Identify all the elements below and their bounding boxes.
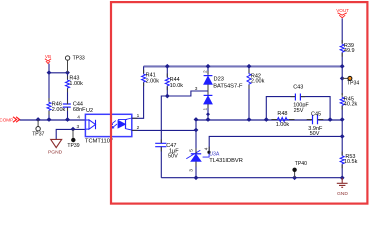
node mid left [194, 117, 199, 122]
capacitor C45 [308, 112, 323, 138]
wire TL431 anode [195, 161, 197, 177]
wire opto pin1 to R41 [132, 83, 144, 119]
node TP37 junction [36, 117, 41, 122]
capacitor C43 [266, 84, 330, 119]
testpoint TP37 [32, 120, 44, 138]
svg-text:VOUT: VOUT [336, 8, 349, 13]
wire COMP to opto pin4 [20, 119, 86, 121]
node rail TP40 [292, 175, 297, 180]
wire TL431 ref [209, 136, 342, 151]
wire mid node rail [196, 119, 312, 121]
node ref right [340, 134, 345, 139]
wire VB row [49, 72, 68, 74]
node bus VOUT column [340, 64, 345, 69]
svg-text:10.0k: 10.0k [170, 83, 184, 89]
svg-text:2.00k: 2.00k [146, 78, 160, 84]
node R46 bottom [47, 117, 52, 122]
svg-text:C45: C45 [311, 112, 321, 118]
node VB row right [65, 70, 70, 75]
svg-text:TP37: TP37 [32, 132, 44, 138]
resistor R46 [47, 73, 66, 120]
node TP34 junction [340, 76, 345, 81]
opto photodetector [118, 118, 132, 130]
node mid R42 [247, 117, 252, 122]
wire VB down [48, 64, 50, 73]
svg-text:5: 5 [189, 149, 195, 152]
node C44 bottom [65, 117, 70, 122]
pin stubs (dark) [49, 40, 342, 168]
svg-text:PGND: PGND [48, 150, 63, 156]
node R44 bottom [165, 94, 170, 99]
svg-text:40.2k: 40.2k [344, 101, 358, 107]
diode D23 BAT54S7-F [204, 66, 243, 119]
node rail TL431 [194, 175, 199, 180]
ground PGND [48, 139, 63, 155]
wire top bus [144, 65, 343, 67]
node bus R42 [247, 64, 252, 69]
power VOUT [336, 8, 349, 18]
wire bottom rail [161, 177, 342, 179]
node D23 pin1 end [206, 112, 210, 116]
svg-text:TP33: TP33 [73, 56, 85, 62]
svg-text:GND: GND [337, 191, 348, 197]
svg-text:COMP: COMP [0, 117, 13, 122]
svg-text:U2: U2 [86, 108, 93, 114]
resistor R43 [66, 73, 84, 104]
svg-text:25V: 25V [294, 108, 304, 114]
svg-text:2.00k: 2.00k [251, 79, 265, 85]
svg-text:R48: R48 [277, 111, 287, 117]
node VB row left [47, 70, 52, 75]
resistor R53 [340, 154, 357, 178]
opto light arrows [111, 121, 117, 129]
resistor R42 [247, 66, 265, 119]
wire TL431 cathode [195, 120, 197, 154]
svg-text:49.9: 49.9 [344, 48, 355, 54]
resistor R39 [340, 43, 354, 67]
svg-text:3: 3 [77, 124, 80, 130]
wire R44 node to C47 [161, 96, 167, 143]
node mid C43 left [264, 117, 269, 122]
svg-text:U3A: U3A [209, 151, 220, 157]
node pin2 TL431 [194, 128, 199, 133]
svg-text:TL431IDBVR: TL431IDBVR [209, 158, 243, 164]
resistor R48 [276, 111, 290, 128]
svg-text:68nF: 68nF [73, 107, 86, 113]
svg-text:D23: D23 [214, 76, 224, 82]
svg-text:TP40: TP40 [295, 161, 307, 167]
ground GND [337, 178, 349, 197]
node TP39 junction [71, 127, 76, 132]
svg-text:1.00k: 1.00k [69, 81, 83, 87]
wire opto pin3 [56, 129, 85, 139]
node rail GND [340, 175, 345, 180]
shunt regulator U3A TL431IDBVR [186, 150, 243, 164]
resistor R45 [340, 96, 357, 119]
svg-text:50V: 50V [168, 154, 178, 160]
resistor R44 [165, 66, 183, 96]
svg-text:TP34: TP34 [347, 81, 359, 87]
svg-text:2.00k: 2.00k [52, 107, 66, 113]
testpoint TP39 [67, 129, 79, 149]
wire right column mid [341, 120, 343, 156]
red highlight border frame [111, 2, 367, 204]
node mid right column [340, 117, 345, 122]
testpoint TP34 [342, 76, 359, 86]
power VB [45, 54, 51, 64]
node mid C43 right [328, 117, 333, 122]
node bus D23 [206, 64, 211, 69]
opto LED [85, 120, 95, 129]
node mid D23 [206, 117, 211, 122]
svg-text:1.00k: 1.00k [276, 122, 290, 128]
capacitor C47 [155, 143, 179, 178]
wire opto pin2 [132, 129, 196, 131]
svg-text:1: 1 [203, 108, 209, 111]
svg-text:3: 3 [189, 169, 195, 172]
wire D23 mid to R44 node [167, 91, 208, 96]
svg-text:BAT54S7-F: BAT54S7-F [213, 83, 243, 89]
svg-text:VB: VB [45, 54, 51, 59]
node bus R44 [165, 64, 170, 69]
svg-text:4: 4 [77, 115, 80, 121]
svg-text:TCMT1107: TCMT1107 [85, 139, 113, 145]
opto-coupler U2 TCMT1107 [85, 108, 132, 145]
svg-text:4: 4 [203, 147, 209, 150]
wire R41 top to bus [143, 66, 145, 73]
testpoint TP40 [292, 161, 307, 178]
port COMP [0, 117, 20, 123]
svg-text:10.5k: 10.5k [344, 159, 358, 165]
capacitor C44 [63, 102, 86, 120]
svg-text:TP39: TP39 [67, 143, 79, 149]
testpoint TP33 [65, 56, 85, 73]
svg-text:C43: C43 [293, 84, 303, 90]
wire bus node down [341, 66, 343, 95]
resistor R41 [142, 73, 160, 85]
wire VOUT down [341, 18, 343, 43]
